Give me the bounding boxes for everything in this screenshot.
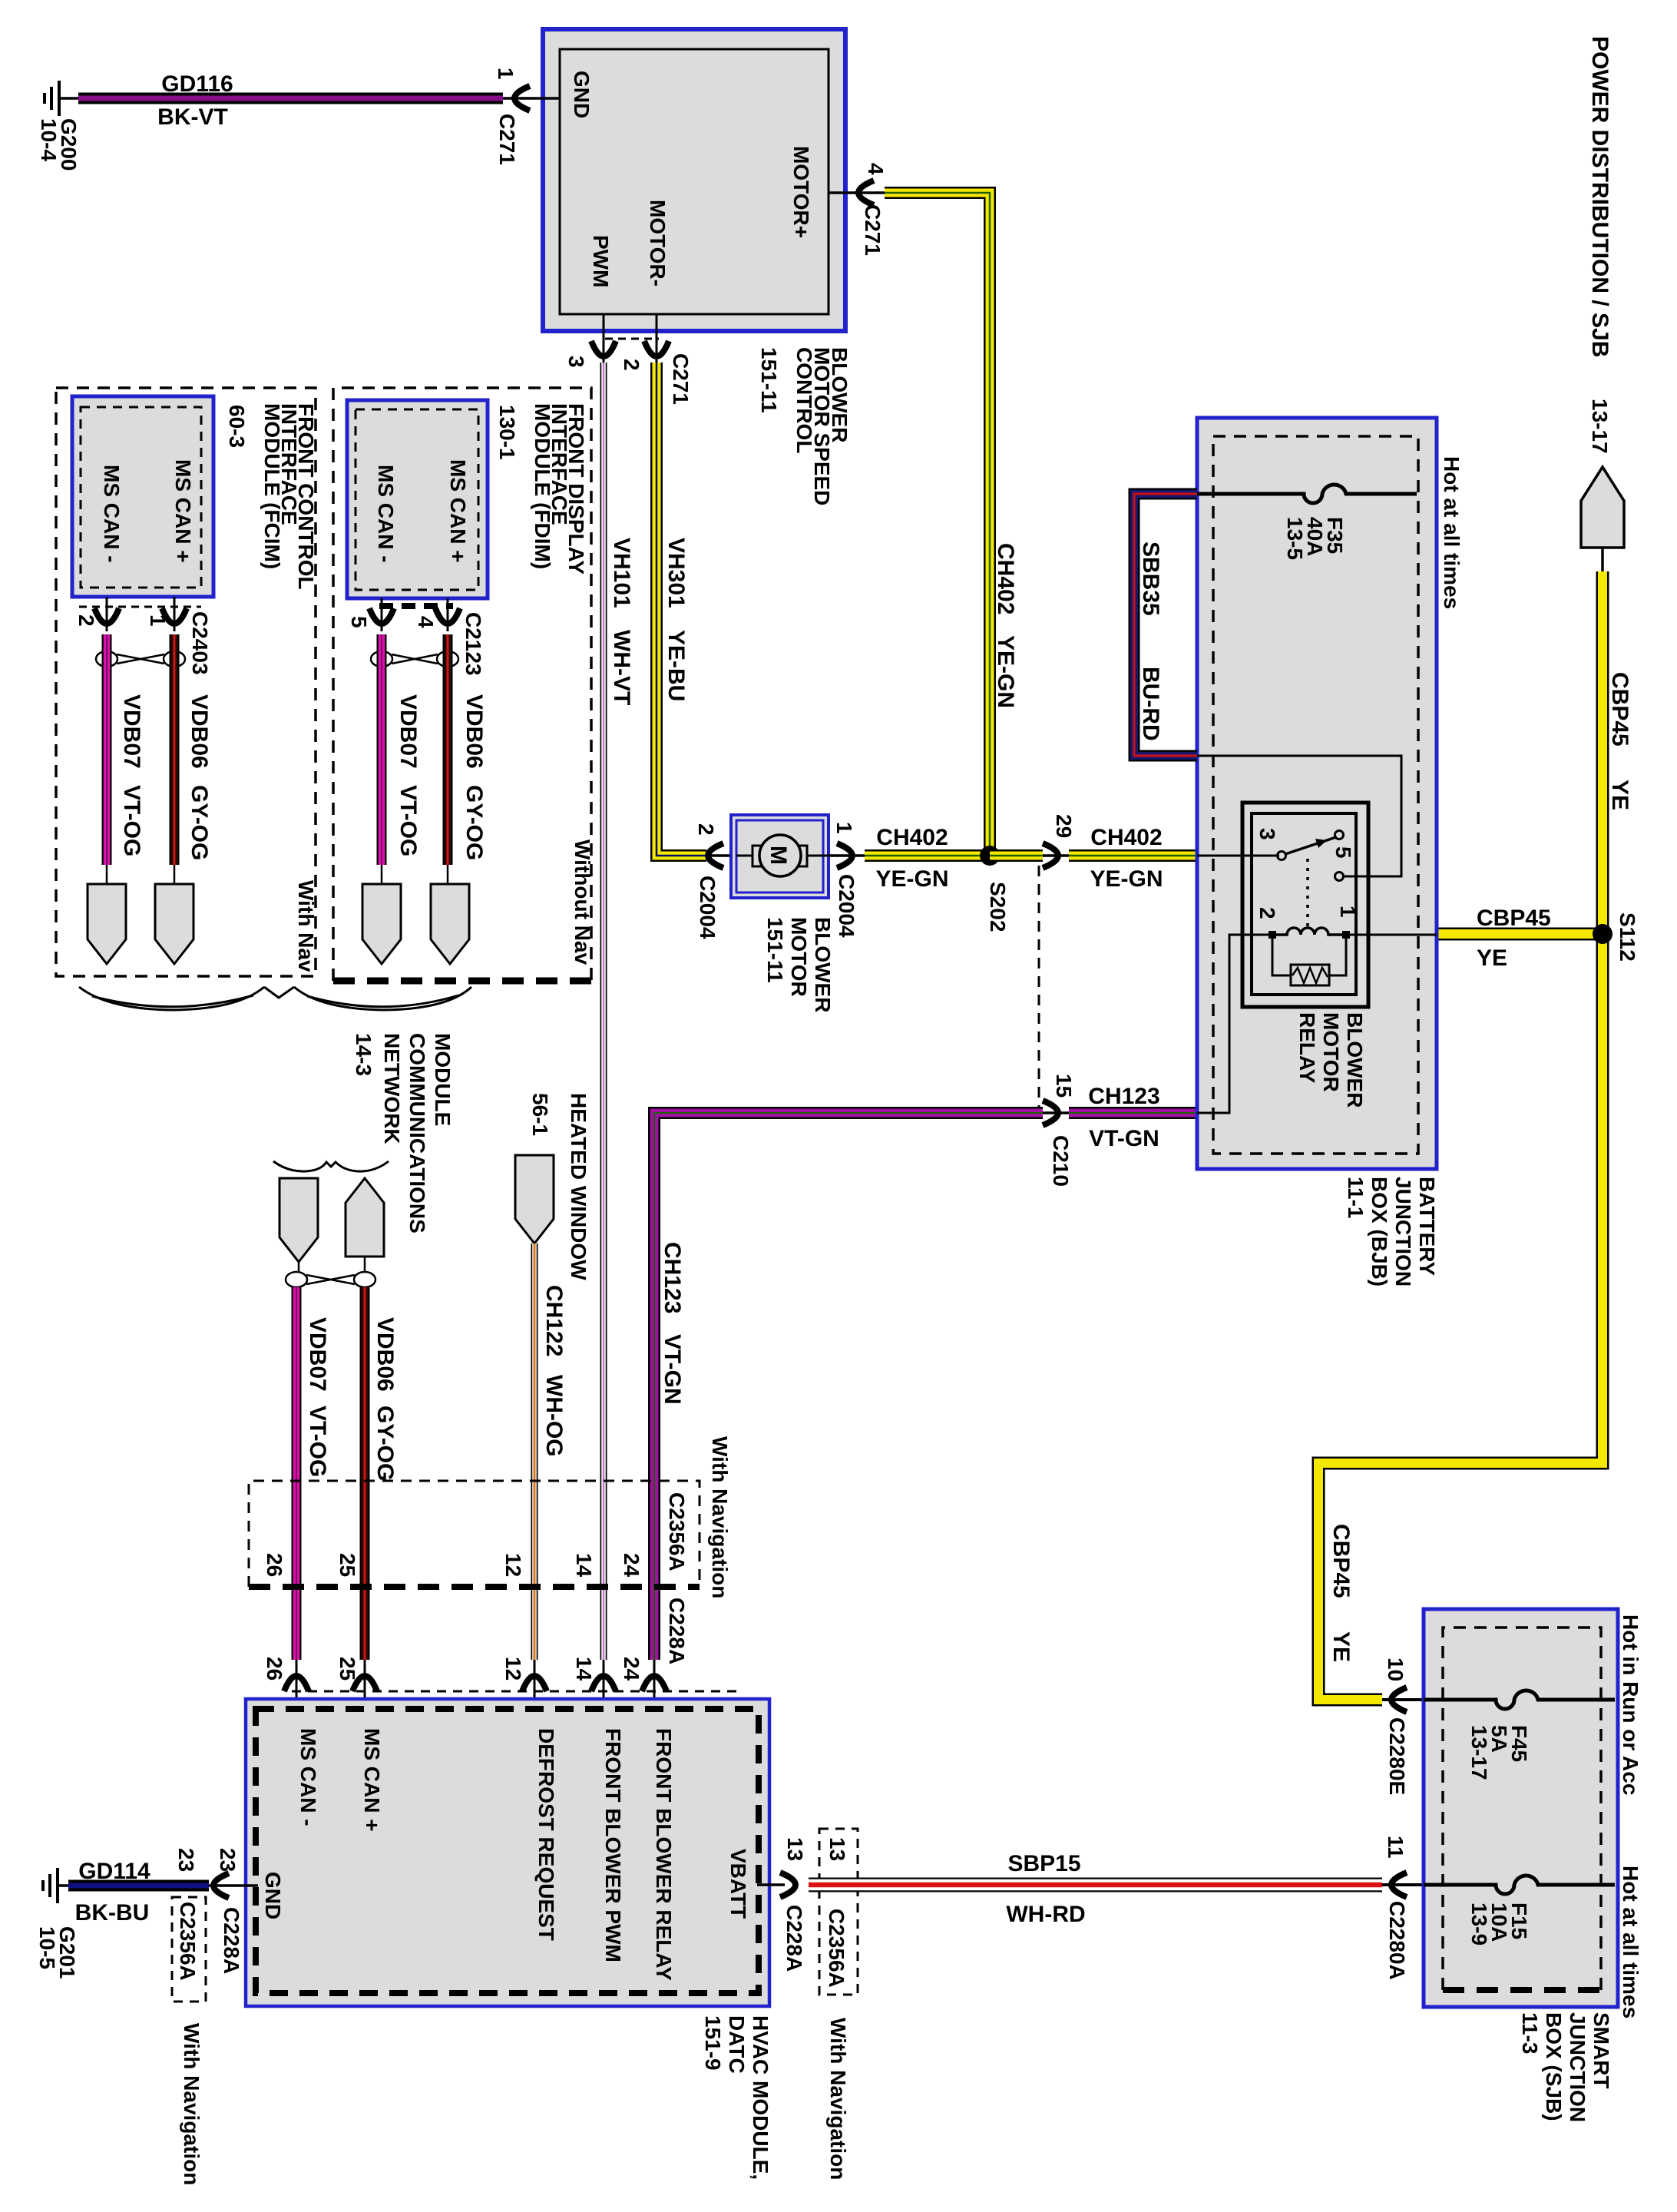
svg-text:VDB07: VDB07 bbox=[305, 1317, 330, 1392]
svg-text:BU-RD: BU-RD bbox=[1138, 667, 1163, 741]
wire VDB07 VT-OG (FDIM) bbox=[377, 634, 387, 865]
svg-text:MODULE (FCIM): MODULE (FCIM) bbox=[260, 403, 284, 569]
wire VDB06 GY-OG (FDIM) bbox=[443, 634, 453, 865]
svg-text:10-5: 10-5 bbox=[35, 1926, 59, 1969]
svg-text:MOTOR-: MOTOR- bbox=[646, 200, 670, 286]
wire SBB35 BU-RD bbox=[1134, 494, 1197, 756]
svg-text:GD114: GD114 bbox=[78, 1859, 150, 1884]
relay contact 5 upper bbox=[1335, 831, 1344, 839]
svg-text:YE: YE bbox=[1328, 1631, 1354, 1662]
svg-text:MODULE: MODULE bbox=[431, 1033, 455, 1126]
wire CH402 YE-GN to BJB bbox=[1069, 849, 1197, 862]
svg-text:BLOWER: BLOWER bbox=[1343, 1012, 1367, 1108]
junction S112 bbox=[1593, 924, 1612, 944]
svg-text:13-17: 13-17 bbox=[1467, 1725, 1491, 1780]
wire CBP45 YE vertical run to SJB bbox=[1318, 571, 1603, 1700]
svg-text:S202: S202 bbox=[986, 882, 1010, 932]
svg-text:BK-VT: BK-VT bbox=[157, 104, 228, 130]
wire CH402 YE-GN motor to S202 bbox=[865, 849, 990, 862]
wire VDB06 GY-OG (FCIM) bbox=[170, 634, 180, 865]
module HVAC MODULE box bbox=[246, 1699, 769, 2006]
svg-text:C228A: C228A bbox=[220, 1907, 243, 1974]
relay pin1 wire to CBP45 bbox=[1350, 934, 1437, 936]
svg-text:CH123: CH123 bbox=[660, 1242, 685, 1313]
svg-text:COMMUNICATIONS: COMMUNICATIONS bbox=[405, 1033, 429, 1233]
svg-text:13-5: 13-5 bbox=[1283, 517, 1307, 560]
connector arrow C2403 pin 1 bbox=[162, 608, 187, 624]
wire stub HVAC GND bbox=[209, 1884, 258, 1887]
svg-text:Hot at all times: Hot at all times bbox=[1440, 456, 1464, 609]
svg-text:MS CAN +: MS CAN + bbox=[171, 459, 195, 563]
svg-text:CH402: CH402 bbox=[876, 825, 948, 850]
svg-text:VDB06: VDB06 bbox=[187, 694, 212, 769]
module BATTERY JUNCTION BOX bbox=[1197, 418, 1437, 1169]
relay resistor bbox=[1272, 939, 1346, 975]
wire stub into blower motor bbox=[706, 854, 756, 857]
svg-text:SBP15: SBP15 bbox=[1007, 1851, 1080, 1876]
svg-text:12: 12 bbox=[501, 1657, 525, 1681]
wire stub arrow29 bbox=[1043, 854, 1069, 857]
svg-text:With Nav: With Nav bbox=[294, 880, 318, 972]
svg-text:1: 1 bbox=[832, 822, 856, 834]
wire stub splice to twist R bbox=[364, 1257, 366, 1272]
twisted pair FDIM bbox=[371, 651, 392, 667]
svg-text:GND: GND bbox=[261, 1872, 285, 1919]
svg-text:FRONT BLOWER PWM: FRONT BLOWER PWM bbox=[601, 1728, 625, 1962]
svg-text:2: 2 bbox=[620, 359, 643, 371]
svg-text:POWER DISTRIBUTION / SJB: POWER DISTRIBUTION / SJB bbox=[1587, 36, 1612, 357]
svg-text:1: 1 bbox=[146, 614, 170, 627]
svg-text:MOTOR: MOTOR bbox=[787, 917, 811, 997]
svg-text:C271: C271 bbox=[495, 114, 519, 165]
svg-text:VT-OG: VT-OG bbox=[119, 785, 144, 856]
splice connector FDIM right bbox=[431, 884, 469, 964]
svg-text:CBP45: CBP45 bbox=[1607, 672, 1632, 747]
svg-text:23: 23 bbox=[174, 1848, 198, 1872]
ground G200 bbox=[45, 81, 59, 116]
wire stub to splice FCIM2 bbox=[106, 865, 108, 884]
wire VH301 YE-BU bbox=[657, 363, 706, 856]
svg-text:CBP45: CBP45 bbox=[1477, 906, 1551, 931]
svg-text:4: 4 bbox=[414, 616, 438, 628]
svg-text:130-1: 130-1 bbox=[495, 405, 519, 460]
svg-text:WH-OG: WH-OG bbox=[541, 1375, 567, 1457]
connector arrow C228A pin 23 bbox=[213, 1873, 229, 1898]
wire stub to splice FDIM5 bbox=[381, 865, 383, 884]
svg-text:With Navigation: With Navigation bbox=[180, 2023, 203, 2185]
relay pin 3 contact bbox=[1278, 852, 1286, 860]
svg-text:MS CAN -: MS CAN - bbox=[374, 465, 398, 563]
svg-text:C2356A: C2356A bbox=[825, 1909, 848, 1988]
connector C2403 dashed boundary bbox=[79, 606, 201, 608]
splice connector FCIM left bbox=[88, 884, 126, 964]
connector arrow C2123 pin 5 bbox=[369, 608, 394, 624]
wire stub SJB pin10 bbox=[1382, 1698, 1424, 1701]
svg-text:C271: C271 bbox=[861, 204, 885, 256]
svg-text:VDB07: VDB07 bbox=[395, 694, 421, 769]
wire stub to splice FCIM1 bbox=[174, 865, 176, 884]
BJB internal line to relay pin5 bbox=[1197, 756, 1401, 876]
svg-text:With Navigation: With Navigation bbox=[826, 2018, 850, 2180]
svg-text:C2280A: C2280A bbox=[1385, 1901, 1409, 1980]
svg-text:S112: S112 bbox=[1616, 912, 1639, 962]
svg-text:15: 15 bbox=[1052, 1074, 1076, 1098]
brace under FDIM bbox=[294, 987, 471, 1010]
off-page connector pentagon bbox=[1581, 467, 1624, 548]
connector C228A dashed line bbox=[292, 1690, 737, 1693]
module BLOWER MOTOR box bbox=[731, 815, 829, 898]
svg-text:YE: YE bbox=[1477, 945, 1507, 971]
svg-text:CONTROL: CONTROL bbox=[792, 347, 816, 453]
dashed connector line C210 bbox=[1038, 866, 1040, 1113]
wire stub GND pin to arrow bbox=[503, 97, 560, 100]
junction S202 bbox=[980, 846, 1000, 866]
twisted pair FCIM bbox=[96, 651, 117, 667]
svg-text:1: 1 bbox=[494, 68, 518, 80]
svg-text:25: 25 bbox=[336, 1553, 359, 1577]
svg-text:C228A: C228A bbox=[665, 1598, 689, 1664]
module FCIM inner box bbox=[72, 396, 213, 597]
relay pin2 wire to CH123 bbox=[1197, 935, 1268, 1113]
svg-text:2: 2 bbox=[1255, 907, 1279, 919]
module FDIM inner box bbox=[347, 400, 488, 598]
svg-text:VBATT: VBATT bbox=[726, 1849, 750, 1919]
connector arrow C2004 pin 1 bbox=[837, 843, 852, 868]
motor symbol M bbox=[736, 855, 829, 857]
relay pin 5 contact bbox=[1335, 873, 1344, 881]
svg-text:MOTOR: MOTOR bbox=[1319, 1012, 1343, 1092]
module FRONT CONTROL INTERFACE MODULE outer dashed bbox=[56, 388, 316, 976]
svg-text:VT-GN: VT-GN bbox=[1089, 1126, 1159, 1151]
svg-text:4: 4 bbox=[864, 163, 888, 175]
svg-text:151-11: 151-11 bbox=[763, 917, 787, 983]
connector arrow C2280E pin 10 bbox=[1391, 1687, 1407, 1712]
wire VH101 WH-VT bbox=[600, 363, 607, 1660]
splice connector lower left bbox=[279, 1178, 318, 1262]
wire stub MOTOR+ pin bbox=[829, 191, 885, 194]
svg-text:VH101: VH101 bbox=[609, 538, 634, 608]
svg-text:C228A: C228A bbox=[782, 1905, 806, 1972]
svg-text:MOTOR+: MOTOR+ bbox=[789, 146, 813, 238]
wire stub to splice FDIM4 bbox=[447, 865, 449, 884]
svg-text:13: 13 bbox=[825, 1837, 849, 1861]
module FRONT DISPLAY INTERFACE MODULE outer dashed bbox=[333, 388, 591, 981]
svg-text:26: 26 bbox=[263, 1657, 286, 1681]
svg-text:SBB35: SBB35 bbox=[1138, 541, 1163, 616]
svg-text:MS CAN -: MS CAN - bbox=[100, 465, 124, 563]
svg-text:MS CAN +: MS CAN + bbox=[446, 459, 470, 563]
wire VDB07 VT-OG (lower) bbox=[292, 1287, 302, 1660]
svg-text:MS CAN -: MS CAN - bbox=[296, 1728, 320, 1826]
svg-text:YE-BU: YE-BU bbox=[663, 630, 689, 701]
svg-text:C2280E: C2280E bbox=[1385, 1717, 1409, 1795]
connector arrow C2280A pin 11 bbox=[1391, 1873, 1407, 1897]
svg-text:5: 5 bbox=[347, 616, 371, 628]
svg-text:13-17: 13-17 bbox=[1588, 399, 1612, 454]
svg-text:C2004: C2004 bbox=[696, 876, 719, 939]
svg-text:SMART: SMART bbox=[1589, 2012, 1613, 2089]
svg-text:2: 2 bbox=[74, 614, 98, 627]
svg-text:FRONT BLOWER RELAY: FRONT BLOWER RELAY bbox=[652, 1728, 676, 1981]
wire CH402 YE-GN S202 to arrow bbox=[990, 849, 1043, 862]
svg-text:BOX (SJB): BOX (SJB) bbox=[1542, 2012, 1566, 2121]
connector arrow C271 pin 3 bbox=[591, 341, 616, 356]
connector C2356A dashed band bbox=[249, 1481, 700, 1587]
wire CH123 VT-GN to BJB bbox=[1069, 1107, 1197, 1119]
svg-text:11-3: 11-3 bbox=[1518, 2012, 1542, 2055]
relay switch blade bbox=[1285, 837, 1336, 854]
svg-text:3: 3 bbox=[564, 356, 588, 368]
pin stub MOTOR- bbox=[656, 314, 658, 363]
svg-text:11-1: 11-1 bbox=[1344, 1177, 1368, 1219]
module SMART JUNCTION BOX bbox=[1424, 1609, 1618, 2007]
relay dotted actuator line bbox=[1306, 859, 1309, 927]
twisted pair lower bbox=[286, 1272, 307, 1287]
svg-text:M: M bbox=[766, 846, 791, 865]
svg-text:CH402: CH402 bbox=[993, 543, 1018, 614]
connector arrow C2123 pin 4 bbox=[435, 608, 460, 624]
svg-text:5: 5 bbox=[1331, 846, 1355, 859]
svg-text:CH123: CH123 bbox=[1088, 1084, 1159, 1109]
svg-text:CBP45: CBP45 bbox=[1328, 1524, 1354, 1598]
svg-text:Without Nav: Without Nav bbox=[571, 839, 594, 965]
connector arrow C210 pin 29 bbox=[1043, 843, 1058, 868]
svg-text:29: 29 bbox=[1052, 814, 1076, 838]
svg-text:GY-OG: GY-OG bbox=[187, 785, 212, 860]
svg-text:C271: C271 bbox=[669, 353, 693, 405]
svg-text:C2356A: C2356A bbox=[176, 1902, 200, 1981]
wire stub motor pin1 bbox=[829, 854, 865, 857]
pin stub FDIM 5 bbox=[381, 598, 383, 631]
connector arrow C271 pin 4 bbox=[858, 180, 874, 205]
svg-text:GND: GND bbox=[570, 71, 594, 118]
svg-text:11: 11 bbox=[1384, 1836, 1407, 1859]
ground G201 bbox=[43, 1868, 58, 1903]
svg-text:VDB07: VDB07 bbox=[119, 694, 144, 769]
svg-text:Hot in Run or Acc: Hot in Run or Acc bbox=[1619, 1614, 1642, 1795]
svg-text:CH122: CH122 bbox=[541, 1285, 567, 1356]
svg-text:C2004: C2004 bbox=[835, 874, 858, 938]
svg-text:25: 25 bbox=[336, 1657, 359, 1681]
connector arrow C271 pin 2 bbox=[644, 341, 669, 356]
wire stub arrow15 bbox=[1043, 1111, 1069, 1114]
svg-text:60-3: 60-3 bbox=[225, 405, 249, 448]
svg-text:3: 3 bbox=[1255, 828, 1279, 840]
svg-text:WH-RD: WH-RD bbox=[1006, 1902, 1085, 1927]
svg-text:BLOWER: BLOWER bbox=[811, 917, 835, 1012]
svg-text:VT-OG: VT-OG bbox=[305, 1406, 330, 1477]
svg-text:VT-OG: VT-OG bbox=[395, 785, 421, 856]
pin stub FDIM 4 bbox=[447, 598, 449, 631]
svg-text:VDB06: VDB06 bbox=[461, 694, 487, 769]
svg-text:BK-BU: BK-BU bbox=[75, 1900, 150, 1926]
svg-text:GY-OG: GY-OG bbox=[372, 1406, 398, 1481]
fuse F35 bbox=[1197, 485, 1417, 503]
svg-text:24: 24 bbox=[620, 1657, 643, 1681]
svg-text:YE-GN: YE-GN bbox=[1090, 866, 1163, 892]
svg-text:MODULE (FDIM): MODULE (FDIM) bbox=[531, 403, 554, 569]
svg-text:Hot at all times: Hot at all times bbox=[1619, 1866, 1642, 2018]
pin stub FCIM 1 bbox=[174, 597, 176, 631]
svg-text:YE-GN: YE-GN bbox=[993, 635, 1018, 708]
splice connector FCIM right bbox=[155, 884, 193, 964]
wire stub SJB pin11 bbox=[1382, 1883, 1424, 1886]
connector arrow C271 pin 1 bbox=[514, 86, 530, 111]
wire CBP45 YE horizontal from BJB to S112 bbox=[1437, 928, 1603, 941]
svg-text:151-9: 151-9 bbox=[701, 2015, 725, 2071]
connector C2123 dashed boundary bbox=[379, 603, 453, 609]
pin stubs into HVAC bbox=[296, 1660, 654, 1709]
brace under FCIM bbox=[79, 987, 264, 1010]
splice connector lower right bbox=[346, 1178, 384, 1257]
svg-text:24: 24 bbox=[620, 1553, 643, 1578]
connector arrow C210 pin 15 bbox=[1043, 1101, 1058, 1125]
wire CH122 WH-OG bbox=[531, 1243, 538, 1660]
wire SBP15 WH-RD bbox=[809, 1878, 1382, 1892]
small brace above splices bbox=[273, 1161, 389, 1171]
svg-text:C2403: C2403 bbox=[188, 611, 212, 675]
relay BLOWER MOTOR RELAY box bbox=[1242, 803, 1368, 1007]
svg-text:23: 23 bbox=[216, 1848, 240, 1872]
svg-text:151-11: 151-11 bbox=[757, 347, 781, 413]
splice connector FDIM left bbox=[362, 884, 401, 964]
svg-text:RELAY: RELAY bbox=[1295, 1012, 1319, 1084]
wire CH123 VT-GN vertical+horizontal bbox=[654, 1113, 1043, 1660]
svg-text:12: 12 bbox=[501, 1553, 525, 1577]
svg-text:13: 13 bbox=[783, 1837, 807, 1861]
svg-text:MS CAN +: MS CAN + bbox=[360, 1728, 384, 1832]
svg-text:CH402: CH402 bbox=[1090, 825, 1162, 850]
svg-text:WH-VT: WH-VT bbox=[609, 630, 634, 705]
wire VDB07 VT-OG (FCIM) bbox=[102, 634, 112, 865]
fuse F15 bbox=[1424, 1876, 1615, 1894]
svg-text:PWM: PWM bbox=[589, 235, 613, 287]
wire GD116 BK-VT bbox=[78, 93, 503, 104]
svg-text:C210: C210 bbox=[1049, 1135, 1073, 1187]
splice connector heated window bbox=[515, 1155, 554, 1243]
connector arrows C228A top bbox=[284, 1676, 309, 1691]
svg-text:JUNCTION: JUNCTION bbox=[1391, 1177, 1415, 1286]
svg-text:56-1: 56-1 bbox=[528, 1093, 552, 1136]
wire CH402 YE-GN from MOTOR+ down to S202 bbox=[885, 193, 990, 853]
svg-text:YE: YE bbox=[1607, 780, 1632, 810]
connector arrow C228A pin 13 bbox=[780, 1873, 795, 1897]
relay coil bbox=[1268, 928, 1348, 935]
wire stub VBATT bbox=[757, 1883, 785, 1886]
svg-text:13-9: 13-9 bbox=[1467, 1902, 1491, 1945]
svg-text:26: 26 bbox=[263, 1553, 286, 1577]
svg-text:VH301: VH301 bbox=[663, 538, 689, 608]
svg-text:GY-OG: GY-OG bbox=[461, 785, 487, 860]
wire VDB06 GY-OG (lower) bbox=[360, 1287, 370, 1660]
pin stub PWM bbox=[603, 314, 605, 363]
svg-text:DATC: DATC bbox=[725, 2015, 749, 2074]
svg-text:VDB06: VDB06 bbox=[372, 1317, 398, 1392]
svg-text:GD116: GD116 bbox=[161, 71, 233, 97]
wire stub splice to twist L bbox=[298, 1262, 300, 1272]
svg-text:2: 2 bbox=[694, 823, 718, 836]
svg-text:JUNCTION: JUNCTION bbox=[1566, 2012, 1589, 2122]
wire GD114 BK-BU bbox=[68, 1880, 209, 1892]
svg-text:HEATED WINDOW: HEATED WINDOW bbox=[567, 1093, 590, 1280]
svg-text:VT-GN: VT-GN bbox=[660, 1334, 685, 1405]
svg-text:14-3: 14-3 bbox=[352, 1033, 375, 1076]
svg-text:BATTERY: BATTERY bbox=[1415, 1177, 1439, 1276]
pin stub FCIM 2 bbox=[106, 597, 108, 631]
connector C2356A dashed box (GND) bbox=[172, 1897, 206, 2002]
BJB internal line to relay pin3 bbox=[1197, 855, 1279, 857]
module BLOWER MOTOR SPEED CONTROL box bbox=[543, 29, 845, 331]
connector arrow C2403 pin 2 bbox=[94, 608, 119, 624]
svg-text:C2356A: C2356A bbox=[665, 1492, 689, 1571]
fuse F45 bbox=[1424, 1690, 1615, 1709]
svg-text:10: 10 bbox=[1384, 1657, 1407, 1681]
svg-text:DEFROST REQUEST: DEFROST REQUEST bbox=[534, 1728, 558, 1941]
svg-text:14: 14 bbox=[572, 1553, 596, 1578]
svg-text:YE-GN: YE-GN bbox=[875, 866, 948, 892]
svg-text:With Navigation: With Navigation bbox=[708, 1436, 732, 1598]
svg-text:14: 14 bbox=[572, 1657, 596, 1681]
svg-text:10-4: 10-4 bbox=[37, 118, 61, 161]
connector C271 dashed boundary bbox=[605, 338, 659, 340]
connector arrow C2004 pin 2 bbox=[708, 843, 723, 868]
svg-text:C2123: C2123 bbox=[461, 612, 485, 676]
svg-text:NETWORK: NETWORK bbox=[380, 1033, 404, 1144]
svg-text:HVAC MODULE,: HVAC MODULE, bbox=[749, 2015, 772, 2180]
connector C2356A dashed box (VBATT) bbox=[819, 1829, 858, 1995]
svg-text:1: 1 bbox=[1336, 906, 1360, 918]
svg-text:BOX (BJB): BOX (BJB) bbox=[1368, 1177, 1391, 1286]
